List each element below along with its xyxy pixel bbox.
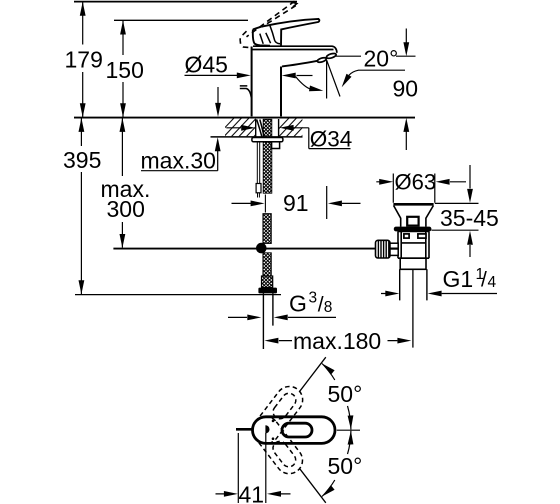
faucet body column [252, 47, 334, 117]
svg-text:4: 4 [488, 274, 497, 291]
pop-up rod linkage (horizontal) [113, 248, 376, 250]
svg-text:35-45: 35-45 [440, 205, 499, 231]
svg-text:8: 8 [324, 299, 333, 316]
bottom view: pull-rod hole (black half-disc) [265, 425, 269, 433]
svg-text:max.180: max.180 [293, 328, 381, 354]
svg-text:90: 90 [393, 76, 419, 102]
svg-text:20°: 20° [364, 46, 399, 72]
waste clamp tab [407, 217, 418, 226]
pop-up pull rod below washer [257, 142, 259, 184]
lower 50 deg arc with arrows [322, 431, 351, 497]
waste tailpipe [400, 269, 427, 300]
svg-text:50°: 50° [328, 453, 363, 479]
counter hatching left of hole [216, 118, 272, 137]
dimension G1 1/4 [381, 293, 497, 295]
dashed handle rotated down 50 deg [247, 411, 308, 479]
waste rim plate [393, 203, 433, 206]
dimension Ø34 (counter hole) with bent leader [226, 128, 350, 149]
svg-text:3: 3 [309, 290, 318, 307]
flexible hose curving through hole [257, 120, 264, 137]
counter bottom line [211, 136, 303, 138]
waste lower section [400, 258, 426, 269]
aerator (two outlined segments, tilted) [317, 57, 327, 63]
pop-up waste: Ø63 extension lines [393, 174, 435, 203]
flow direction arrow at spout [297, 75, 313, 77]
waste body [398, 231, 429, 258]
upper 50 deg ray [300, 357, 326, 391]
top reference line (handle top level) [74, 1, 297, 3]
svg-text:50°: 50° [328, 381, 363, 407]
svg-text:150: 150 [106, 57, 144, 83]
raised handle tip (dashed outline bits) [290, 2, 297, 7]
svg-text:179: 179 [65, 47, 103, 73]
swing arc arrow (aerator angle) [296, 77, 313, 90]
hole edges in counter [256, 119, 279, 137]
G3/8 threaded tail tube [263, 293, 273, 349]
dimension G3/8 [228, 316, 336, 318]
dimension max.180 [279, 340, 398, 342]
hose-end reference line (395 bottom) [75, 294, 281, 296]
91 left extension (hose centerline) [264, 195, 266, 213]
svg-text:Ø63: Ø63 [395, 170, 437, 195]
svg-text:/: / [481, 269, 487, 292]
waste centerline / max.180 right extension [412, 270, 414, 348]
dimension 179 [82, 2, 84, 117]
handle lever [261, 19, 319, 46]
svg-text:41: 41 [239, 482, 265, 504]
svg-text:G1: G1 [443, 266, 474, 292]
svg-text:395: 395 [63, 147, 101, 173]
dashed handle rotated up 50 deg [247, 381, 308, 449]
overflow slots [404, 234, 409, 238]
spout-top reference line (150 level) [114, 19, 248, 21]
svg-text:G: G [289, 291, 307, 317]
dimension max.300 [121, 118, 123, 247]
linkage joint node [256, 243, 267, 254]
waste funnel [394, 206, 434, 227]
pull-rod knob at back of faucet [240, 86, 252, 98]
pull rod tip [258, 193, 260, 198]
bottom view: solid handle stadium [253, 417, 336, 444]
handle grip block [253, 29, 270, 45]
dimension 41 [216, 433, 291, 503]
dimension 150 [122, 21, 124, 117]
spout underside curve [282, 61, 318, 67]
counter top line [74, 117, 415, 119]
upper 50 deg arc with arrows [322, 364, 351, 430]
svg-text:/: / [318, 294, 324, 317]
bottom view: inner slot [282, 423, 312, 437]
hose ferrule [262, 276, 273, 288]
grip interior joint lines [270, 25, 280, 44]
hose segment (braided) [263, 214, 271, 244]
hose segment below node [263, 253, 271, 276]
bottom view: axis dash-dot dots [272, 420, 275, 423]
dimension 35-45 [432, 165, 479, 257]
dimension Ø45 with leader arrow [185, 74, 238, 76]
bottom view: pull rod sticking out [236, 428, 253, 431]
bottom view: centerline right [337, 429, 360, 431]
dimension max.30 [141, 87, 218, 171]
hose nut (black) [258, 288, 277, 294]
fixing nut bracket [272, 142, 280, 149]
svg-text:max.30: max.30 [141, 148, 216, 174]
lower 50 deg ray [300, 469, 326, 503]
pull rod end collar [256, 184, 261, 193]
dimension Ø63 [376, 181, 466, 183]
20 degree construction lines at spout [327, 60, 340, 99]
pull-rod knurled knob [376, 240, 391, 258]
svg-text:Ø45: Ø45 [185, 52, 228, 78]
raised handle position (dashed) [240, 1, 296, 47]
svg-text:91: 91 [283, 190, 309, 216]
dimension 395 [80, 118, 82, 294]
waste flange (black) [394, 227, 432, 232]
counter hatching right of hole [271, 118, 319, 137]
mounting washer under counter [252, 138, 283, 142]
rod connector to waste [390, 243, 398, 255]
dimension 90 [336, 29, 416, 151]
dimension 91 [232, 186, 361, 219]
faucet spout top edge and tip [253, 46, 337, 53]
svg-text:300: 300 [107, 196, 145, 222]
svg-text:Ø34: Ø34 [310, 127, 353, 152]
threaded shank / braided hose (cross-hatched) through counter [263, 119, 272, 193]
